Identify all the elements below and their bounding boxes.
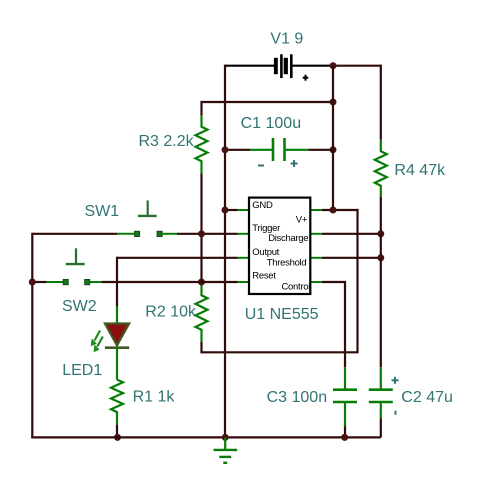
resistor R4 [375, 140, 387, 197]
wire R4 bottom to C2 top [380, 197, 382, 367]
wire Output net horizontal [117, 257, 238, 259]
junction C1 left node [222, 146, 229, 153]
junction R1 bottom node [114, 434, 121, 441]
LED light arrow 2 [97, 337, 103, 347]
capacitor C3 [333, 367, 357, 426]
wire R2 bottom stub [200, 341, 202, 353]
LED light arrow 1 [95, 331, 101, 341]
wire left vertical x=32.3 [31, 233, 33, 438]
wire R3 bottom to R2 top [200, 173, 202, 282]
wire battery positive lead [292, 65, 333, 67]
junction Threshold node [377, 254, 384, 261]
wire Discharge net [322, 233, 381, 235]
junction y102 right node [330, 99, 337, 106]
svg-text:Threshold: Threshold [267, 258, 307, 269]
svg-text:Discharge: Discharge [268, 233, 308, 244]
svg-text:C1 100u: C1 100u [241, 115, 302, 132]
wire x357 vertical [356, 209, 358, 352]
resistor R3 [196, 116, 208, 174]
resistor R2 [196, 283, 208, 341]
junction C1 right node [330, 146, 337, 153]
svg-text:C3 100n: C3 100n [267, 389, 328, 406]
capacitor C1 [250, 138, 308, 161]
C1 minus sign [258, 165, 264, 167]
wire SW1 right to Trigger [177, 233, 238, 235]
junction SW2 left node [29, 279, 36, 286]
svg-text:V1 9: V1 9 [270, 31, 303, 48]
wire Output net vertical to LED [116, 257, 118, 307]
LED LED1 [91, 306, 129, 352]
op IC U1 NE555 box [249, 198, 310, 294]
junction C3 bottom node [341, 434, 348, 441]
wire SW1 left [32, 233, 117, 235]
svg-text:U1 NE555: U1 NE555 [245, 306, 319, 323]
wire R1 bottom [116, 424, 118, 437]
pin Threshold stub [310, 257, 322, 259]
svg-text:V+: V+ [296, 214, 308, 225]
battery V1 plates [274, 54, 293, 78]
junction V+ node [330, 207, 337, 214]
wire C1 right [308, 149, 333, 151]
wire R3 top stub [200, 101, 202, 116]
C1 plus sign [291, 160, 298, 167]
junction GND node [222, 207, 229, 214]
wire Threshold net [322, 257, 381, 259]
svg-text:LED1: LED1 [62, 362, 102, 379]
wire battery negative lead [225, 65, 274, 67]
junction battery plus node [330, 62, 337, 69]
junction R2 top node [198, 279, 205, 286]
pin GND stub [238, 209, 250, 211]
svg-text:R1 1k: R1 1k [133, 389, 176, 406]
switch SW2 [47, 248, 102, 284]
pin Output stub [238, 257, 250, 259]
wire C3 bottom [344, 427, 346, 438]
svg-text:Trigger: Trigger [252, 223, 280, 234]
wire x333 vertical battery to V+ [332, 66, 334, 210]
wire Control net vertical to C3 [344, 281, 346, 367]
resistor R1 [111, 380, 123, 425]
svg-text:SW1: SW1 [85, 203, 120, 220]
wire bottom ground rail [32, 436, 381, 437]
wire SW2 right to Reset [101, 281, 237, 283]
svg-text:SW2: SW2 [62, 298, 97, 315]
ground symbol [214, 437, 238, 462]
wire GND pin to x225 [225, 209, 238, 211]
wire battery plus to R4 top [333, 65, 381, 67]
pin Reset stub [238, 281, 250, 283]
svg-text:Control: Control [282, 282, 311, 293]
junction SW1 Trigger node [198, 230, 205, 237]
capacitor C2 [369, 367, 393, 418]
wire top horizontal y=102 [202, 101, 334, 103]
svg-text:R2 10k: R2 10k [145, 304, 197, 321]
pin Discharge stub [310, 233, 322, 235]
junction Discharge node [377, 230, 384, 237]
junction ground rail center node [222, 434, 229, 441]
battery plus sign [303, 75, 309, 81]
pin Control stub [310, 281, 322, 283]
svg-text:C2 47u: C2 47u [401, 389, 453, 406]
wire V+ pin to x357 [322, 209, 358, 211]
wire SW2 left [32, 281, 46, 283]
IC U1 pin stubs [238, 210, 322, 282]
wire left power vertical x=225 [224, 65, 226, 438]
svg-text:GND: GND [252, 200, 273, 211]
C2 minus tick [395, 411, 397, 415]
pin Trigger stub [238, 233, 250, 235]
svg-text:R3 2.2k: R3 2.2k [139, 133, 195, 150]
wire R2 bottom horizontal y=352.3 [202, 351, 359, 353]
wire LED to R1 [116, 348, 118, 380]
svg-text:Reset: Reset [252, 270, 276, 281]
wire C2 bottom [380, 419, 382, 438]
wire C1 left [225, 149, 250, 151]
wire Control net horizontal [322, 281, 345, 283]
C2 plus sign [392, 377, 399, 384]
wire R4 top vertical [380, 65, 382, 140]
pin V+ stub [310, 209, 322, 211]
svg-text:Output: Output [252, 247, 279, 258]
switch SW1 [117, 200, 177, 236]
svg-text:R4 47k: R4 47k [394, 162, 446, 179]
